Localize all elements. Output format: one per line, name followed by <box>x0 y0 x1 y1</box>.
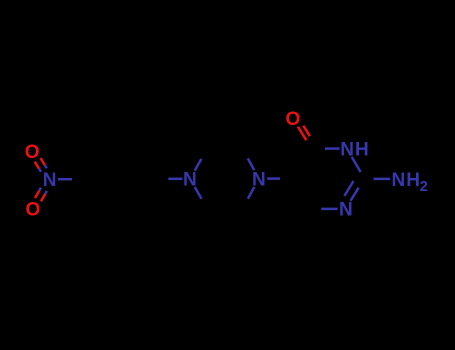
svg-text:2: 2 <box>420 179 428 195</box>
svg-text:NH: NH <box>392 170 421 191</box>
svg-text:O: O <box>286 109 301 130</box>
svg-text:NH: NH <box>340 140 369 161</box>
svg-text:O: O <box>25 142 40 163</box>
svg-text:O: O <box>26 200 41 221</box>
svg-text:N: N <box>183 170 197 191</box>
svg-text:N: N <box>339 200 353 221</box>
svg-text:N: N <box>252 169 266 190</box>
svg-text:N: N <box>43 170 57 191</box>
